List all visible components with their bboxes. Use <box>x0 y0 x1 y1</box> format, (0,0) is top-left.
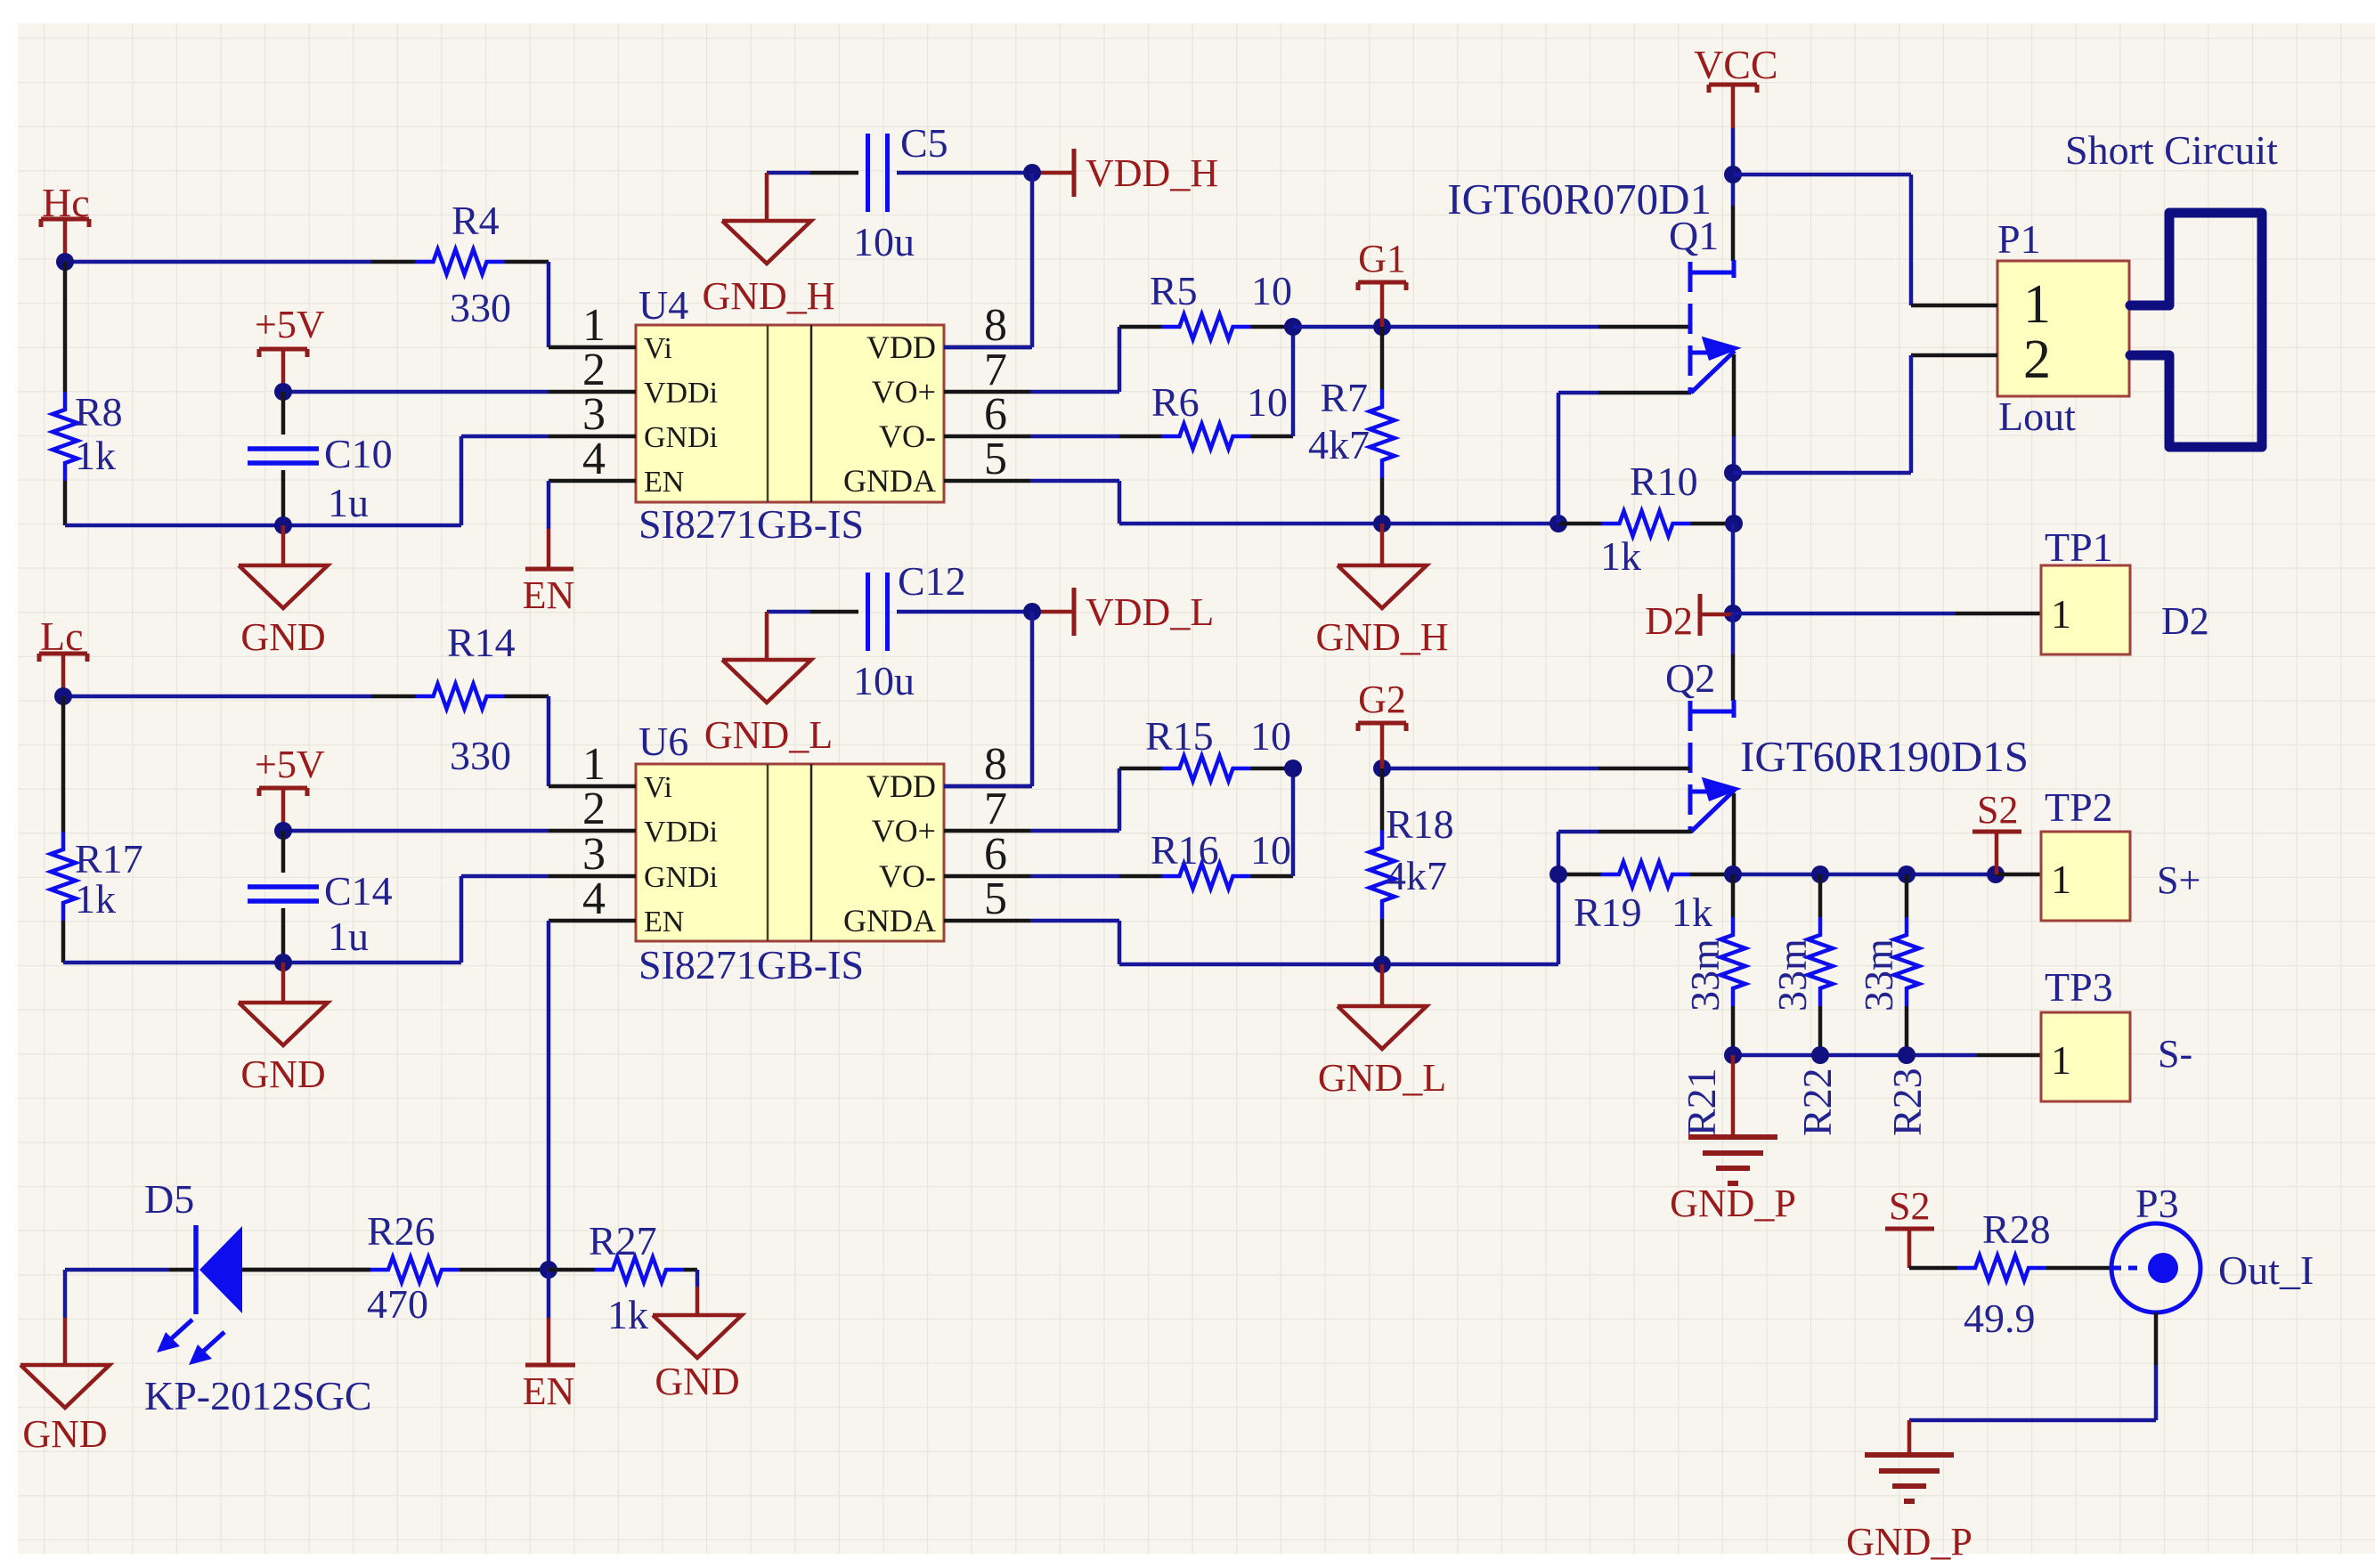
svg-text:VDD: VDD <box>866 768 936 804</box>
short-circuit loop wire <box>2130 213 2262 447</box>
wire GND rail top-left <box>65 436 549 534</box>
svg-text:S2: S2 <box>1889 1184 1930 1228</box>
connector P1 <box>1911 216 2129 439</box>
resistor R22 33m <box>1769 874 1840 1136</box>
svg-text:VO+: VO+ <box>872 813 936 849</box>
svg-text:GNDA: GNDA <box>843 463 936 499</box>
port EN below U4 <box>523 529 575 617</box>
ground GND_P bottom <box>1846 1420 1972 1564</box>
svg-text:7: 7 <box>984 345 1007 395</box>
svg-text:VDD_H: VDD_H <box>1086 151 1218 195</box>
svg-text:Short Circuit: Short Circuit <box>2065 127 2278 173</box>
svg-text:R17: R17 <box>75 836 143 881</box>
wire Q2 source L <box>1558 832 1691 874</box>
svg-text:GND_L: GND_L <box>1318 1056 1446 1100</box>
svg-text:R19: R19 <box>1574 890 1642 935</box>
svg-text:6: 6 <box>984 829 1007 880</box>
svg-text:R4: R4 <box>451 198 500 243</box>
wire VDD_L to U6 pin8 <box>944 603 1041 786</box>
resistor R27 1k <box>549 1218 697 1337</box>
svg-text:VCC: VCC <box>1694 42 1778 87</box>
svg-text:10: 10 <box>1250 713 1291 759</box>
junction EN node <box>540 1261 557 1279</box>
svg-text:10: 10 <box>1247 379 1288 425</box>
svg-text:1k: 1k <box>75 433 116 478</box>
resistor R23 33m <box>1856 874 1930 1136</box>
ic U6 SI8271GB-IS <box>549 719 1030 987</box>
testpoint TP1 <box>2041 524 2209 654</box>
svg-text:R18: R18 <box>1386 801 1454 847</box>
svg-text:G1: G1 <box>1358 237 1406 280</box>
connector P3 Out_I <box>2111 1181 2314 1312</box>
svg-text:GND_H: GND_H <box>1315 615 1448 659</box>
svg-text:330: 330 <box>450 733 511 778</box>
wire Q1 emitter down <box>1724 354 1743 532</box>
svg-text:8: 8 <box>984 739 1007 790</box>
svg-text:VO+: VO+ <box>872 374 936 410</box>
svg-text:VDD: VDD <box>866 329 936 365</box>
svg-text:EN: EN <box>523 573 575 617</box>
svg-text:Vi: Vi <box>644 771 672 804</box>
power +5V top <box>255 303 325 392</box>
svg-text:1: 1 <box>2023 274 2051 335</box>
svg-text:TP3: TP3 <box>2045 964 2113 1010</box>
resistor R14 <box>371 620 549 778</box>
ic U4 SI8271GB-IS <box>549 282 1030 547</box>
ground GND_L below R18 <box>1318 964 1446 1100</box>
svg-text:TP1: TP1 <box>2045 524 2113 570</box>
svg-text:C10: C10 <box>324 431 393 476</box>
svg-text:Lc: Lc <box>40 613 84 659</box>
svg-text:1: 1 <box>2051 591 2071 637</box>
resistor R15 <box>1119 713 1293 781</box>
svg-text:VDD_L: VDD_L <box>1086 590 1214 634</box>
wire Hc to R4 <box>56 253 371 271</box>
svg-text:GND: GND <box>655 1360 739 1403</box>
testpoint TP2 <box>2041 784 2200 921</box>
svg-text:TP2: TP2 <box>2045 784 2113 830</box>
svg-text:Q2: Q2 <box>1665 655 1715 701</box>
wire P1 pin2 to node <box>1733 355 1911 473</box>
svg-text:R7: R7 <box>1320 375 1368 420</box>
svg-text:R28: R28 <box>1982 1206 2051 1252</box>
svg-text:R8: R8 <box>75 389 123 435</box>
wire emitter L to R10 junction <box>1558 393 1691 524</box>
svg-text:4: 4 <box>582 873 606 924</box>
svg-text:R22: R22 <box>1794 1068 1840 1136</box>
wire Q2 emitter down <box>1732 793 1737 874</box>
svg-text:330: 330 <box>450 285 511 330</box>
capacitor C10 <box>248 392 393 525</box>
wire R27 to GND <box>695 1270 700 1315</box>
resistor R28 49.9 <box>1909 1206 2111 1341</box>
svg-text:GND: GND <box>240 1052 325 1096</box>
wire GND rail lower-left <box>63 876 549 971</box>
svg-text:R14: R14 <box>447 620 516 665</box>
resistor R17 <box>51 696 143 963</box>
resistor R21 33m <box>1679 874 1745 1136</box>
port S2 above TP2 <box>1972 788 2021 874</box>
wire VCC to P1 pin1 <box>1733 175 1911 305</box>
power +5V lower <box>255 743 325 831</box>
svg-text:C12: C12 <box>898 558 966 604</box>
wire gate rail G1 <box>1293 318 1689 336</box>
transistor Q2 IGT60R190D1S <box>1665 655 2029 833</box>
svg-text:VO-: VO- <box>879 418 936 454</box>
wire S- rail <box>1724 1046 2041 1064</box>
svg-text:2: 2 <box>2023 329 2051 390</box>
testpoint TP3 <box>2041 964 2192 1101</box>
svg-text:10u: 10u <box>853 219 915 264</box>
svg-text:R21: R21 <box>1679 1068 1724 1136</box>
svg-text:GND: GND <box>240 615 325 659</box>
port EN bottom <box>523 1270 575 1413</box>
wire U6 GNDA rail <box>1030 874 1558 973</box>
svg-text:SI8271GB-IS: SI8271GB-IS <box>638 501 864 547</box>
wire Lc to R14 <box>54 687 371 705</box>
wire S+ rail <box>1724 865 2041 883</box>
wire U4 pin4 to EN port <box>547 481 551 529</box>
svg-text:6: 6 <box>984 389 1007 440</box>
svg-text:VO-: VO- <box>879 858 936 894</box>
svg-text:1: 1 <box>582 300 606 351</box>
svg-text:R27: R27 <box>589 1218 657 1263</box>
port S2 near R28 <box>1885 1184 1934 1268</box>
svg-text:1k: 1k <box>1671 890 1712 935</box>
svg-text:EN: EN <box>644 466 684 499</box>
svg-text:EN: EN <box>644 906 684 938</box>
ground GND bottom left <box>20 1318 110 1456</box>
svg-text:SI8271GB-IS: SI8271GB-IS <box>638 942 864 987</box>
svg-text:U6: U6 <box>638 719 688 764</box>
resistor R8 <box>53 262 123 525</box>
svg-text:5: 5 <box>984 434 1007 484</box>
svg-text:D2: D2 <box>2161 599 2209 643</box>
svg-text:GNDi: GNDi <box>644 861 718 894</box>
svg-text:R26: R26 <box>367 1208 435 1254</box>
capacitor C5 <box>853 120 1032 264</box>
wire P3 to GND_P <box>1909 1312 2156 1420</box>
svg-text:3: 3 <box>582 389 606 440</box>
text Short Circuit <box>2065 127 2278 173</box>
svg-text:1u: 1u <box>328 480 369 525</box>
wire D2 to TP1 <box>1733 612 2041 616</box>
svg-text:4k7: 4k7 <box>1308 422 1370 467</box>
svg-text:1k: 1k <box>1600 533 1641 579</box>
ground GND_H left of C5 <box>702 173 834 318</box>
power VDD_L <box>1032 588 1214 636</box>
transistor Q1 IGT60R070D1 <box>1447 175 1737 394</box>
svg-text:P1: P1 <box>1997 216 2041 262</box>
svg-text:GNDA: GNDA <box>843 903 936 938</box>
resistor R6 <box>1119 379 1293 449</box>
svg-text:S2: S2 <box>1977 788 2018 832</box>
svg-text:1: 1 <box>582 739 606 790</box>
svg-text:33m: 33m <box>1682 938 1728 1011</box>
svg-text:33m: 33m <box>1856 938 1901 1011</box>
svg-text:1: 1 <box>2051 1037 2071 1083</box>
svg-text:GND_H: GND_H <box>702 274 834 318</box>
svg-text:1: 1 <box>2051 857 2071 902</box>
capacitor C14 <box>248 831 393 963</box>
svg-text:VDDi: VDDi <box>644 816 718 849</box>
wire C12 left <box>767 610 858 614</box>
svg-text:1u: 1u <box>328 914 369 959</box>
svg-text:5: 5 <box>984 873 1007 924</box>
power VDD_H <box>1032 149 1218 197</box>
svg-text:U4: U4 <box>638 282 688 328</box>
ground GND below C14 <box>239 963 328 1096</box>
svg-text:33m: 33m <box>1769 938 1815 1011</box>
wire Q2 gate <box>1382 767 1689 771</box>
svg-text:4: 4 <box>582 434 606 484</box>
wire R6 up to gate rail <box>1284 318 1302 436</box>
wire U6 VO- to R16 <box>1030 874 1119 879</box>
svg-text:C14: C14 <box>324 868 393 914</box>
wire R16 up to gate rail <box>1284 760 1391 876</box>
resistor R4 <box>371 198 549 330</box>
svg-text:49.9: 49.9 <box>1964 1296 2036 1341</box>
svg-text:GND_P: GND_P <box>1846 1520 1972 1564</box>
wire U6 VO+ to R15 <box>1030 768 1119 831</box>
wire R14 to U6 pin1 <box>547 696 551 786</box>
wire C5 left <box>767 171 858 175</box>
wire U4 VO+ to R5 <box>1030 327 1119 392</box>
capacitor C12 <box>853 558 1032 703</box>
svg-text:R15: R15 <box>1145 713 1214 759</box>
wire LED anode to R26 <box>242 1268 370 1272</box>
ground GND_H below R7 <box>1315 524 1448 659</box>
resistor R10 1k <box>1558 459 1734 579</box>
svg-text:G2: G2 <box>1358 678 1406 721</box>
svg-text:+5V: +5V <box>255 743 325 786</box>
ground GND right of R27 <box>653 1315 742 1403</box>
svg-text:GND_P: GND_P <box>1670 1182 1796 1225</box>
svg-text:KP-2012SGC: KP-2012SGC <box>144 1373 372 1418</box>
svg-text:10: 10 <box>1251 268 1292 313</box>
wire U6 pin4 EN vertical <box>547 921 551 1270</box>
wire U4 GNDA rail <box>1030 481 1567 532</box>
svg-text:R6: R6 <box>1151 379 1200 425</box>
svg-text:10: 10 <box>1250 827 1291 873</box>
ground GND_P below R21 <box>1670 1055 1796 1225</box>
svg-text:GND_L: GND_L <box>704 713 833 757</box>
wire VCC vertical <box>1724 128 1742 261</box>
port D2 <box>1645 594 1733 643</box>
svg-text:R10: R10 <box>1630 459 1698 504</box>
resistor R19 1k <box>1549 862 1733 935</box>
svg-text:VDDi: VDDi <box>644 377 718 410</box>
port G2 <box>1358 678 1406 768</box>
svg-text:470: 470 <box>367 1281 428 1327</box>
svg-text:S-: S- <box>2158 1032 2192 1076</box>
svg-text:Q1: Q1 <box>1669 213 1719 258</box>
ground GND below C10 <box>239 525 328 659</box>
ground GND_L left of C12 <box>704 612 833 757</box>
svg-text:P3: P3 <box>2135 1181 2179 1226</box>
svg-text:IGT60R190D1S: IGT60R190D1S <box>1740 732 2029 781</box>
svg-text:EN: EN <box>523 1369 575 1413</box>
wire U4 VO- to R6 <box>1030 435 1119 439</box>
svg-text:Out_I: Out_I <box>2218 1247 2314 1293</box>
power VCC <box>1694 42 1778 128</box>
svg-text:1k: 1k <box>607 1292 648 1337</box>
wire emitter to D2 node <box>1724 524 1742 622</box>
resistor R18 4k7 <box>1370 768 1454 964</box>
svg-text:R5: R5 <box>1150 268 1198 313</box>
port Hc <box>41 180 90 262</box>
led D5 KP-2012SGC <box>144 1176 372 1418</box>
svg-text:Hc: Hc <box>42 180 90 225</box>
resistor R16 <box>1119 827 1293 889</box>
svg-text:8: 8 <box>984 300 1007 351</box>
wire LED left to GND <box>65 1270 196 1318</box>
svg-text:4k7: 4k7 <box>1386 853 1447 898</box>
svg-text:C5: C5 <box>900 120 948 166</box>
svg-text:Vi: Vi <box>644 332 672 365</box>
svg-text:D2: D2 <box>1645 599 1693 643</box>
svg-text:2: 2 <box>582 345 606 395</box>
svg-text:GNDi: GNDi <box>644 421 718 454</box>
wire +5V to U4 pin2 <box>274 383 549 401</box>
resistor R26 470 <box>242 1208 549 1327</box>
svg-text:Lout: Lout <box>1998 394 2076 439</box>
svg-text:7: 7 <box>984 784 1007 834</box>
resistor R5 <box>1119 268 1293 339</box>
svg-text:2: 2 <box>582 784 606 834</box>
resistor R7 4k7 <box>1308 327 1395 524</box>
svg-text:R23: R23 <box>1884 1068 1930 1136</box>
svg-text:1k: 1k <box>75 876 116 922</box>
wire +5V to U6 pin2 <box>274 822 549 840</box>
wire R4 to U4 pin1 <box>547 262 551 347</box>
svg-text:S+: S+ <box>2157 858 2200 902</box>
svg-text:R16: R16 <box>1151 827 1219 873</box>
svg-text:10u: 10u <box>853 658 915 703</box>
svg-text:D5: D5 <box>144 1176 194 1222</box>
wire D2 node to Q2 drain <box>1731 613 1736 701</box>
svg-text:+5V: +5V <box>255 303 325 346</box>
port G1 <box>1358 237 1406 327</box>
port Lc <box>39 613 87 696</box>
svg-text:GND: GND <box>22 1412 107 1456</box>
svg-text:3: 3 <box>582 829 606 880</box>
wire VDD to C5 junction <box>944 164 1041 347</box>
